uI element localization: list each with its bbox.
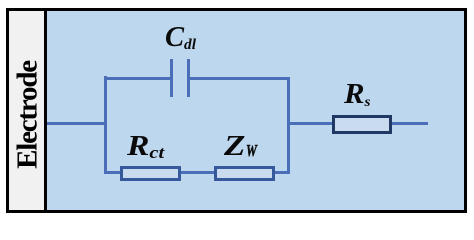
label C_dl (165, 24, 196, 52)
label Electrode (27, 114, 29, 116)
resistor R_s (332, 115, 392, 134)
electrode bar (6, 8, 47, 213)
label Z_W (224, 133, 245, 161)
capacitor C_dl left plate (170, 59, 173, 97)
wire: bottom branch left (105, 171, 121, 174)
node A: left vertical of parallel branch (104, 76, 107, 174)
wire: output from R_s (392, 122, 428, 125)
label R_ct (127, 133, 164, 161)
wire: input from electrode to node A (47, 122, 105, 125)
label R_s (344, 81, 371, 109)
capacitor C_dl right plate (187, 59, 190, 97)
wire: between R_ct and Z_W (181, 171, 215, 174)
node B: right vertical of parallel branch (287, 77, 290, 175)
wire: top branch right (capacitor to node B) (190, 77, 290, 80)
wire: bottom branch right (275, 171, 288, 174)
wire: top branch left (to capacitor) (105, 77, 170, 80)
resistor R_ct (120, 166, 181, 181)
Warburg element Z_W (214, 166, 275, 181)
wire: node B to R_s (288, 122, 332, 125)
